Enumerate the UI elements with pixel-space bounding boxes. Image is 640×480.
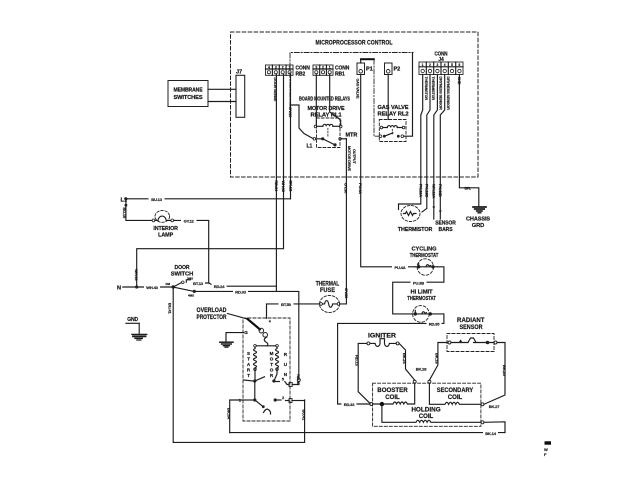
- svg-text:CYCLING: CYCLING: [412, 247, 437, 253]
- svg-text:BK.25: BK.25: [502, 365, 507, 377]
- svg-text:N: N: [117, 285, 121, 291]
- svg-text:WH.10: WH.10: [281, 181, 286, 193]
- svg-text:RD.13: RD.13: [355, 355, 360, 367]
- membrane switches box: [168, 81, 208, 107]
- wire door switch junction down to lower rail: [173, 287, 304, 442]
- overload protector: [197, 308, 271, 346]
- wire cycling to hi-limit: [393, 267, 444, 314]
- wire BT.50 fuse to motor overload: [267, 304, 320, 318]
- svg-text:S: S: [247, 351, 250, 356]
- svg-text:CHASSIS: CHASSIS: [466, 217, 490, 223]
- svg-text:BARS: BARS: [439, 227, 453, 233]
- svg-text:SENSOR: SENSOR: [435, 221, 456, 227]
- relay RL1 motor drive: [307, 106, 358, 150]
- svg-text:L1: L1: [307, 144, 313, 150]
- wire lamp to door switch top: [174, 220, 209, 283]
- wire term2 right: [292, 400, 305, 402]
- svg-text:BU.41: BU.41: [168, 303, 173, 315]
- svg-text:6: 6: [458, 63, 460, 67]
- svg-text:P1: P1: [366, 67, 373, 73]
- row1 to row2 connector: [254, 381, 256, 400]
- svg-text:LAMP: LAMP: [158, 232, 173, 238]
- igniter: [367, 334, 399, 347]
- wire hi-limit to coil box junction: [338, 314, 444, 404]
- svg-text:DOOR: DOOR: [175, 265, 190, 271]
- wire term5 to RD.33 vertical: [292, 382, 299, 385]
- connector P2: [385, 63, 401, 75]
- svg-text:GY.30: GY.30: [344, 288, 349, 299]
- svg-text:RD.33: RD.33: [235, 289, 247, 294]
- wire RB2 pin3 down (RD.34) to door switch: [194, 75, 277, 287]
- svg-text:DM: DM: [166, 282, 171, 286]
- svg-text:RADIANT: RADIANT: [457, 318, 485, 324]
- connector CONN RB2: [266, 65, 311, 77]
- label RD.33 on wire to coil box: [342, 401, 357, 407]
- svg-text:BU.10: BU.10: [122, 208, 127, 220]
- svg-text:MOTOR DRIVE: MOTOR DRIVE: [347, 146, 351, 172]
- svg-text:3: 3: [315, 66, 317, 70]
- svg-text:P2: P2: [394, 67, 401, 73]
- svg-text:4: 4: [444, 63, 446, 67]
- svg-text:PK.11D: PK.11D: [438, 184, 443, 197]
- secondary coil: [429, 383, 481, 404]
- wire motor drive output (GY.30): [340, 139, 346, 304]
- wire membrane to J7 upper: [208, 88, 236, 90]
- svg-text:DRYNESS SENSOR: DRYNESS SENSOR: [446, 77, 450, 111]
- svg-text:THERMOSTAT: THERMOSTAT: [410, 253, 439, 259]
- svg-text:PU.3B: PU.3B: [413, 280, 424, 285]
- svg-text:THERMOSTAT: THERMOSTAT: [407, 296, 436, 302]
- label RD.35 on wire: [427, 321, 442, 327]
- svg-text:RD.24: RD.24: [214, 284, 226, 289]
- wire RL2 right side / inner box right edge: [404, 53, 413, 137]
- node P1-RL2 thick bar: [361, 58, 374, 60]
- wire igniter left down: [358, 343, 370, 403]
- run winding: [276, 347, 279, 369]
- svg-text:GAS VALVE: GAS VALVE: [378, 105, 409, 111]
- svg-text:WH.16A: WH.16A: [432, 184, 437, 198]
- svg-text:COIL: COIL: [419, 414, 434, 420]
- svg-text:RB1: RB1: [335, 71, 345, 77]
- svg-text:3: 3: [275, 66, 277, 70]
- svg-text:THERMAL: THERMAL: [316, 282, 340, 288]
- wire door switch lower (RD.33) to motor term 5: [196, 291, 299, 378]
- svg-text:BK.27: BK.27: [489, 404, 501, 409]
- wire radiant left down: [429, 343, 448, 381]
- svg-text:FUSE: FUSE: [320, 288, 335, 294]
- hi limit thermostat: [407, 290, 436, 323]
- wire membrane to J7 lower: [208, 101, 236, 103]
- svg-text:SECONDARY: SECONDARY: [437, 388, 474, 394]
- svg-text:3MS: 3MS: [187, 277, 193, 281]
- wire RB2 pin2 down (WH.10) to N junction: [137, 75, 284, 288]
- svg-text:BK.16: BK.16: [434, 353, 439, 365]
- svg-text:DRYNESS SENSOR: DRYNESS SENSOR: [439, 77, 443, 111]
- svg-text:COIL: COIL: [448, 395, 463, 401]
- svg-text:BT.50: BT.50: [281, 302, 292, 307]
- door switch: [117, 265, 196, 297]
- wire igniter right down to holding coil terminal: [399, 343, 415, 380]
- wire thermistor 2: [422, 75, 430, 213]
- svg-text:BK.14: BK.14: [485, 431, 497, 436]
- radiant sensor: [447, 318, 497, 352]
- svg-text:BR.: BR.: [465, 186, 471, 191]
- label BK.27: [487, 403, 501, 409]
- chassis ground symbol: [473, 206, 486, 208]
- svg-text:2: 2: [429, 63, 431, 67]
- svg-text:MEMBRANE: MEMBRANE: [174, 88, 204, 94]
- motor box: [220, 318, 305, 421]
- GND symbol left: [126, 317, 147, 340]
- connector P1: [357, 59, 373, 74]
- holding coil: [382, 404, 481, 422]
- svg-text:BU.13: BU.13: [151, 197, 163, 202]
- svg-text:MOTOR DRIVE: MOTOR DRIVE: [308, 106, 345, 112]
- terminal circles on box: [370, 403, 373, 406]
- microprocessor control dashed box: [231, 32, 479, 177]
- wire thermistor 1: [399, 75, 423, 210]
- svg-text:HI LIMIT: HI LIMIT: [411, 290, 434, 296]
- wire radiant right down: [484, 343, 505, 405]
- svg-text:MICROPROCESSOR CONTROL: MICROPROCESSOR CONTROL: [316, 40, 393, 47]
- svg-text:GY.30: GY.30: [344, 183, 349, 194]
- relay RL2 gas valve: [378, 105, 409, 142]
- svg-text:T: T: [247, 373, 250, 378]
- wire RB2 pin1 down (BK.12) to L1 rail: [290, 75, 292, 199]
- svg-text:M: M: [270, 351, 274, 356]
- coil: [314, 125, 317, 128]
- wire P2 to RL2 coil: [387, 75, 389, 120]
- svg-text:BOOSTER: BOOSTER: [377, 388, 408, 394]
- svg-text:COIL: COIL: [385, 395, 400, 401]
- label BT.13: [191, 280, 205, 286]
- wire GY.10 branch to RL1 common: [291, 105, 314, 139]
- svg-text:G: G: [244, 330, 248, 335]
- svg-text:RD.33: RD.33: [344, 402, 356, 407]
- booster coil: [373, 383, 415, 404]
- svg-text:RD.34: RD.34: [274, 181, 279, 193]
- svg-text:4MS: 4MS: [188, 293, 194, 297]
- wire P1 gas valve down to cycling thermostat: [361, 75, 415, 267]
- sensor bar marks: [432, 207, 435, 210]
- board mounted relays inner box (dash-dot): [290, 53, 413, 108]
- svg-text:BK.5A: BK.5A: [227, 408, 232, 420]
- svg-text:SWITCHES: SWITCHES: [174, 95, 204, 101]
- connector CONN RB1: [313, 65, 350, 77]
- wire holding coil to bottom rail: [484, 422, 505, 433]
- svg-text:PU.4A: PU.4A: [394, 265, 405, 270]
- svg-text:3: 3: [436, 63, 438, 67]
- wire term1 to rail: [230, 400, 243, 433]
- thermal fuse: [316, 282, 340, 313]
- svg-text:GY.12: GY.12: [184, 218, 195, 223]
- connector J7: [236, 75, 245, 117]
- label PU.3B on wire: [411, 280, 427, 286]
- svg-text:BOARD MOUNTED RELAYS: BOARD MOUNTED RELAYS: [299, 97, 351, 103]
- svg-text:1: 1: [329, 66, 331, 70]
- svg-text:T: T: [270, 362, 273, 367]
- svg-text:2: 2: [282, 66, 284, 70]
- svg-text:RELAY RL2: RELAY RL2: [378, 112, 409, 118]
- svg-text:T: T: [247, 357, 250, 362]
- svg-text:THERMISTOR: THERMISTOR: [398, 227, 433, 233]
- svg-text:SENSOR: SENSOR: [460, 325, 484, 331]
- svg-text:PROTECTOR: PROTECTOR: [197, 315, 228, 321]
- contact row 1: [244, 380, 254, 381]
- svg-text:GAS VALVE: GAS VALVE: [355, 79, 359, 100]
- wire dryness sensor 2: [440, 75, 444, 220]
- bottom rail BK.14: [230, 432, 505, 434]
- svg-text:J7: J7: [236, 70, 242, 76]
- svg-text:WH.10: WH.10: [134, 269, 139, 281]
- svg-text:OVERLOAD: OVERLOAD: [197, 308, 228, 314]
- svg-text:THERMISTOR: THERMISTOR: [431, 77, 435, 101]
- svg-text:BK.12: BK.12: [288, 181, 293, 193]
- svg-text:PU.4A: PU.4A: [358, 183, 363, 194]
- thermistor: [398, 206, 433, 234]
- svg-text:BU.41: BU.41: [301, 410, 306, 422]
- svg-text:BK.28: BK.28: [416, 367, 428, 372]
- wire RB1 pin1 to RL1 coil right: [330, 75, 341, 126]
- svg-text:1: 1: [289, 66, 291, 70]
- svg-text:GY.10: GY.10: [288, 107, 293, 118]
- switch: [313, 138, 316, 141]
- svg-text:WH.43: WH.43: [146, 285, 158, 290]
- svg-text:PK.16B: PK.16B: [425, 184, 430, 197]
- wire RB1 pin3 to RL1 coil left: [315, 75, 317, 126]
- wire dryness sensor 1: [434, 75, 438, 220]
- winding top rail: [254, 345, 257, 348]
- start winding: [254, 347, 257, 369]
- svg-text:OUTPUT: OUTPUT: [352, 149, 356, 165]
- svg-text:2: 2: [322, 66, 324, 70]
- svg-text:4: 4: [269, 320, 271, 324]
- svg-text:PK.16A: PK.16A: [419, 184, 424, 197]
- svg-text:RD.35: RD.35: [429, 321, 441, 326]
- centrifugal actuator arc: [264, 409, 271, 414]
- corner stamp mark: [544, 441, 551, 457]
- svg-text:4: 4: [268, 66, 270, 70]
- svg-text:GND: GND: [127, 317, 138, 323]
- svg-text:BK.24: BK.24: [402, 353, 407, 365]
- connector CONN J4: [419, 52, 463, 75]
- svg-text:1: 1: [422, 63, 424, 67]
- svg-text:5: 5: [451, 63, 453, 67]
- svg-text:O: O: [270, 357, 274, 362]
- svg-text:THERMISTOR: THERMISTOR: [424, 77, 428, 101]
- interior lamp: [122, 199, 178, 239]
- svg-text:MTR: MTR: [346, 133, 358, 139]
- svg-text:O: O: [270, 368, 274, 373]
- wire dash-dot vertical to RL2 left: [374, 59, 379, 136]
- svg-text:INTERIOR: INTERIOR: [153, 226, 178, 232]
- cycling thermostat: [410, 247, 439, 276]
- label PU.4A on wire: [392, 264, 408, 270]
- svg-text:GRD: GRD: [472, 223, 485, 229]
- svg-text:HOLDING: HOLDING: [411, 408, 441, 414]
- gas valve coil box: [373, 383, 481, 426]
- junction dot: [380, 402, 384, 406]
- svg-text:BT.13: BT.13: [193, 281, 204, 286]
- label RD.24: [212, 283, 227, 289]
- wire J4 gnd to chassis: [459, 75, 478, 207]
- svg-text:RB2: RB2: [296, 71, 306, 77]
